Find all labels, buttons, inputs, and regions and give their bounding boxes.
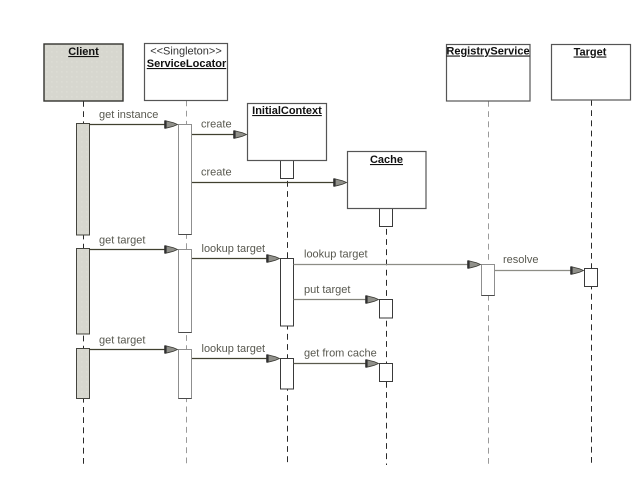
svg-text:create: create <box>201 119 232 131</box>
svg-text:resolve: resolve <box>503 254 538 266</box>
svg-text:lookup target: lookup target <box>304 249 368 261</box>
svg-text:lookup target: lookup target <box>202 243 266 255</box>
svg-text:<<Singleton>>: <<Singleton>> <box>150 46 222 58</box>
svg-text:Target: Target <box>574 47 607 59</box>
svg-text:Client: Client <box>68 46 99 58</box>
svg-text:create: create <box>201 167 232 179</box>
svg-text:lookup target: lookup target <box>202 343 266 355</box>
svg-text:Cache: Cache <box>370 154 403 166</box>
svg-text:RegistryService: RegistryService <box>446 46 529 58</box>
svg-text:InitialContext: InitialContext <box>252 105 322 117</box>
svg-text:get target: get target <box>99 235 145 247</box>
svg-text:ServiceLocator: ServiceLocator <box>147 58 227 70</box>
svg-text:get instance: get instance <box>99 109 158 121</box>
svg-text:get target: get target <box>99 335 145 347</box>
svg-text:put target: put target <box>304 284 350 296</box>
svg-text:get from cache: get from cache <box>304 348 377 360</box>
